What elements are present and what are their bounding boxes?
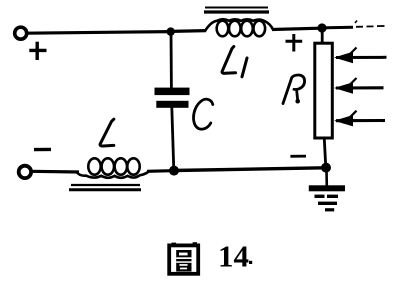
terminal input - [19,166,31,178]
capacitor C plate bottom [156,101,188,108]
wire coil to node C [147,169,172,173]
plus sign output [286,34,303,52]
node A junction [167,27,175,35]
wire resistor to node D [324,137,326,168]
wire coil to node B [272,28,320,29]
arrow tap 2 [334,78,384,94]
inductor L1 [205,19,273,36]
wire top to coil [171,29,206,33]
wire capacitor feed [170,32,173,88]
node B junction [317,23,326,32]
inductor L [76,158,149,178]
node D junction [321,163,331,173]
resistor R [315,43,333,138]
inductor L core lines [69,185,141,190]
inductor L1 core lines [204,8,269,13]
svg-text:14: 14 [218,239,249,274]
plus sign input [29,42,46,60]
arrow tap 3 [334,111,385,127]
capacitor C plate top [155,88,190,96]
label L1 [222,47,247,77]
wire node B to resistor [321,28,324,44]
caption figure glyph [169,242,198,274]
terminal input + [15,27,27,39]
label R [283,75,305,104]
node C junction [169,166,179,176]
wire bottom left [31,170,79,174]
wire top left [27,32,172,34]
wire bottom rail [174,168,324,171]
label C [194,99,213,129]
arrow tap 1 [334,48,387,64]
wire dashed top right [326,21,385,28]
ground [309,170,345,211]
minus sign output [290,155,306,158]
minus sign input [34,148,51,152]
label L [100,119,114,146]
wire capacitor to node C [172,107,174,171]
